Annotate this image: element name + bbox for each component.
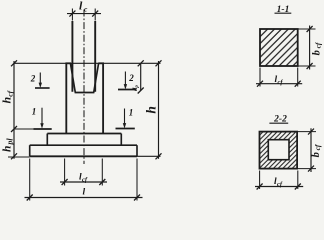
svg-text:pl: pl bbox=[6, 138, 15, 146]
svg-text:2-2: 2-2 bbox=[273, 115, 287, 125]
svg-text:2: 2 bbox=[30, 74, 36, 84]
svg-text:cf: cf bbox=[278, 79, 284, 86]
svg-text:1: 1 bbox=[32, 107, 37, 117]
svg-text:1-1: 1-1 bbox=[277, 5, 290, 15]
svg-text:p: p bbox=[135, 85, 140, 89]
svg-text:h: h bbox=[2, 146, 14, 152]
svg-text:2: 2 bbox=[128, 73, 134, 83]
svg-text:cf: cf bbox=[277, 181, 283, 188]
svg-text:cf: cf bbox=[82, 177, 88, 184]
svg-text:h: h bbox=[143, 106, 158, 114]
svg-text:b: b bbox=[311, 152, 322, 157]
svg-text:1: 1 bbox=[129, 108, 134, 118]
svg-text:l: l bbox=[83, 188, 86, 198]
svg-text:b: b bbox=[312, 50, 323, 55]
